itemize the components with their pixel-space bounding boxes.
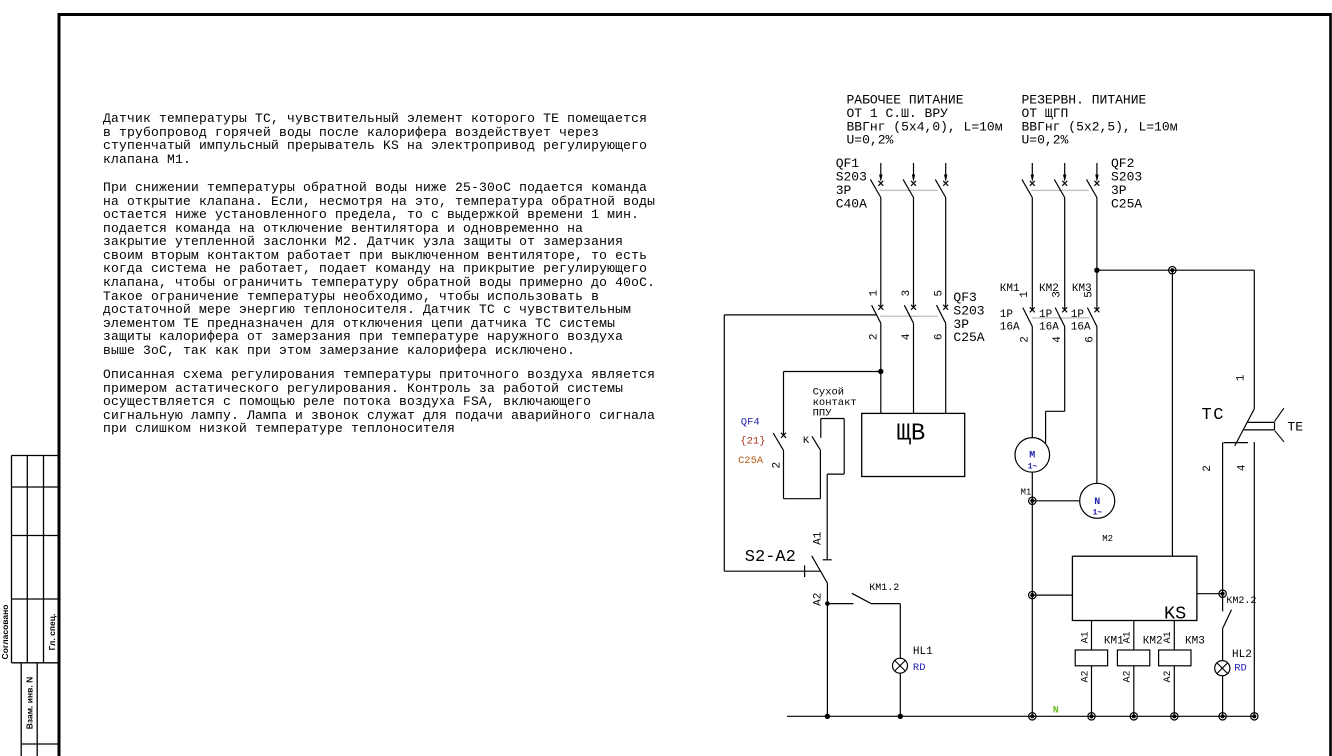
wire TC pin4 down to N bus: [1253, 442, 1255, 716]
wire QF3 pole 2 to panel ЩВ: [913, 323, 915, 413]
svg-text:КМ1.2: КМ1.2: [869, 583, 899, 594]
wire QF3 pole 3 to panel ЩВ: [945, 323, 947, 413]
wire M1 junction to motor M2: [1032, 500, 1079, 502]
svg-text:А1: А1: [812, 531, 824, 545]
svg-text:K: K: [803, 435, 810, 447]
junction node QF4 branch: [878, 369, 883, 374]
svg-text:16А: 16А: [1039, 321, 1059, 333]
bus junction at coil KM1 wire: [1088, 713, 1095, 720]
contactor coil КМ1: [1075, 621, 1107, 717]
TC contact blade through TE element: [1235, 409, 1255, 446]
svg-text:6: 6: [933, 333, 945, 340]
wire branch to QF4 horizontal: [784, 371, 881, 373]
svg-text:А1: А1: [1080, 631, 1091, 643]
dry contact K of fire panel (blade and stub): [812, 419, 821, 451]
S2-A2 fixed contact tick: [804, 565, 806, 577]
contactor KM1 main contact (cross, blade): [1023, 307, 1035, 326]
KM contacts gray pole link: [1032, 317, 1090, 319]
junction node on M1 wire at KS branch: [1029, 591, 1036, 598]
controller box KS: [1072, 556, 1197, 624]
wire TC pin2 down to KM2.2: [1222, 443, 1224, 594]
title block stamp table lower section: [21, 663, 59, 756]
svg-text:1: 1: [869, 290, 881, 297]
wire M1 branch to KS left side: [1032, 594, 1072, 596]
svg-text:2: 2: [869, 333, 881, 340]
wire K contact bottom vertical: [819, 450, 821, 499]
wire QF2 pole 3 to KM contact: [1096, 198, 1098, 310]
svg-text:4: 4: [1052, 336, 1064, 343]
wire QF1 pole 2 to QF3: [913, 198, 915, 308]
svg-text:КМ2.2: КМ2.2: [1226, 596, 1256, 607]
svg-text:KS: KS: [1164, 603, 1186, 624]
wire QF1 pole 3 to QF3: [945, 198, 947, 308]
svg-text:1Р: 1Р: [1000, 309, 1014, 321]
circuit breaker QF2 pole 2 (arrow, contact cross, blade): [1054, 163, 1067, 198]
wire top horizontal net from QF2 pole3 to TC: [1097, 269, 1254, 271]
svg-text:C25A: C25A: [953, 330, 984, 345]
svg-text:16А: 16А: [1071, 321, 1091, 333]
neutral bus N horizontal: [787, 715, 1254, 717]
svg-text:1~: 1~: [1028, 463, 1038, 472]
svg-text:А2: А2: [813, 593, 825, 606]
wire QF4 down: [783, 450, 785, 498]
circuit breaker QF3 label: [953, 290, 984, 345]
contactor KM2 main contact (cross, blade): [1055, 307, 1067, 326]
wire top net down to KS box: [1171, 270, 1173, 556]
circuit breaker QF1 pole 2 (arrow, contact cross, blade): [903, 163, 916, 198]
contact KM1.2: [827, 593, 900, 603]
svg-text:1Р: 1Р: [1071, 309, 1085, 321]
contactor KM3 main contact (cross, blade): [1087, 307, 1099, 326]
svg-text:U=0,2%: U=0,2%: [847, 133, 894, 148]
svg-text:3: 3: [901, 290, 913, 297]
svg-text:TE: TE: [1287, 420, 1303, 435]
svg-text:C40A: C40A: [836, 196, 867, 211]
circuit breaker QF2 pole 1 (arrow, contact cross, blade): [1022, 163, 1035, 198]
wire HL1 to N bus: [899, 673, 901, 716]
TC contact terminal 2 bar: [1223, 442, 1248, 444]
svg-text:ЩВ: ЩВ: [897, 421, 926, 448]
wire from left control branch to QF3 pole 1: [724, 314, 876, 316]
wire QF1 pole 1 to QF3: [880, 198, 882, 308]
svg-text:Гл. спец.: Гл. спец.: [47, 614, 57, 651]
svg-text:КМ1: КМ1: [1000, 283, 1020, 295]
junction node A2: [825, 601, 830, 606]
contact KM2.2: [1223, 594, 1232, 628]
svg-text:КМ2: КМ2: [1143, 635, 1163, 647]
svg-text:КМ3: КМ3: [1185, 635, 1205, 647]
wire motor M1 down to KS and N bus: [1031, 472, 1033, 716]
panel box ЩВ: [862, 413, 965, 476]
circuit breaker QF4 contact (cross, blade): [773, 433, 786, 451]
junction node branch to KS: [1169, 267, 1176, 274]
svg-text:1~: 1~: [1093, 509, 1103, 518]
svg-text:КМ1: КМ1: [1104, 635, 1124, 647]
title block stamp table upper section: [12, 456, 60, 663]
svg-text:RD: RD: [913, 662, 926, 674]
svg-text:N: N: [1094, 497, 1100, 508]
svg-text:QF4: QF4: [741, 417, 760, 429]
svg-text:M: M: [1029, 451, 1035, 462]
bus junction at coil KM3 wire: [1171, 713, 1178, 720]
svg-text:5: 5: [1084, 291, 1096, 298]
svg-text:6: 6: [1084, 336, 1096, 343]
svg-text:1Р: 1Р: [1039, 309, 1053, 321]
svg-text:А2: А2: [1080, 670, 1091, 682]
svg-text:RD: RD: [1234, 663, 1247, 675]
svg-text:HL1: HL1: [913, 646, 933, 658]
wire S2-A2 down to N bus: [826, 584, 828, 717]
circuit breaker QF3 pole 1 (contact cross, blade): [872, 305, 884, 323]
svg-text:C25A: C25A: [738, 455, 764, 467]
svg-text:{21}: {21}: [740, 436, 765, 448]
svg-text:2: 2: [1020, 336, 1032, 343]
contactor coil КМ3: [1159, 621, 1191, 717]
wire QF2 pole 2 to KM contact: [1064, 198, 1066, 310]
svg-text:3: 3: [1052, 291, 1064, 298]
circuit breaker QF2 pole 3 (arrow, contact cross, blade): [1087, 163, 1100, 198]
svg-text:А2: А2: [1163, 670, 1174, 682]
reserve supply header text: [1022, 93, 1178, 148]
svg-text:1: 1: [1235, 374, 1247, 381]
wire KS right side to KM2.2: [1197, 593, 1223, 595]
wire KM1 contact to motor M1: [1031, 327, 1033, 438]
svg-text:16А: 16А: [1000, 321, 1020, 333]
junction node on QF2 pole3 wire: [1094, 268, 1099, 273]
contactor coil КМ2: [1117, 621, 1149, 717]
switch S2-A2 blade: [812, 556, 828, 584]
motor M1 circle: [1015, 438, 1050, 473]
svg-text:4: 4: [901, 333, 913, 340]
svg-text:ППУ: ППУ: [813, 408, 833, 420]
circuit breaker QF2 label: [1111, 156, 1142, 211]
drawing frame left border: [58, 13, 61, 756]
rating label 1P 16A of KM1: [1000, 309, 1020, 333]
contactor labels KM1 KM2 KM3: [1000, 283, 1092, 295]
bus junction at S2-A2 wire: [825, 714, 830, 719]
bus junction at M1 wire: [1029, 713, 1036, 720]
svg-text:S2-A2: S2-A2: [745, 548, 796, 567]
drawing frame right border: [1329, 13, 1332, 756]
bus junction at HL1 wire: [898, 714, 903, 719]
junction node M1: [1029, 497, 1036, 504]
wire down to TC contact (pin 1): [1253, 270, 1255, 409]
circuit breaker QF1 pole 3 (arrow, contact cross, blade): [935, 163, 948, 198]
svg-text:C25A: C25A: [1111, 196, 1142, 211]
circuit breaker QF1 gray pole link: [880, 189, 938, 191]
circuit breaker QF3 pole 2 (contact cross, blade): [904, 305, 916, 323]
wire KM1.2 to lamp HL1: [899, 604, 901, 659]
bus junction at TC pin4 wire: [1251, 713, 1258, 720]
svg-text:U=0,2%: U=0,2%: [1022, 133, 1069, 148]
svg-text:А1: А1: [1123, 631, 1134, 643]
rating label 1P 16A of KM2: [1039, 309, 1059, 333]
svg-text:М1: М1: [1021, 487, 1032, 497]
wire HL2 to N bus: [1222, 676, 1224, 717]
svg-text:1: 1: [1019, 291, 1031, 298]
TE capsule bars: [1244, 422, 1275, 430]
svg-text:N: N: [1053, 706, 1059, 717]
wire branch to QF4 vertical: [783, 372, 785, 435]
svg-text:М2: М2: [1102, 534, 1113, 544]
bus junction at HL2 wire: [1219, 713, 1226, 720]
circuit breaker QF4 labels: [738, 417, 766, 467]
drawing frame top border: [58, 13, 1332, 16]
bus junction at coil KM2 wire: [1130, 713, 1137, 720]
wire S2-A2 feed horizontal: [724, 570, 820, 572]
lamp HL2: [1215, 661, 1230, 676]
svg-text:5: 5: [933, 290, 945, 297]
wire KM2 contact to motor M1 (jog): [1046, 327, 1065, 443]
lamp HL1: [893, 658, 908, 673]
working supply header text: [847, 93, 1003, 148]
wire KM2.2 to lamp HL2: [1222, 628, 1224, 661]
circuit breaker QF2 gray pole link: [1031, 189, 1089, 191]
svg-text:Согласовано: Согласовано: [0, 605, 10, 660]
coil terminal A1 tee bar: [823, 559, 832, 561]
svg-text:А1: А1: [1163, 631, 1174, 643]
wire KM3 contact to motor M2: [1096, 327, 1098, 484]
wire bracket from K contact to coil A1: [821, 419, 844, 560]
circuit breaker QF3 gray pole link: [880, 315, 937, 317]
svg-text:2: 2: [771, 462, 783, 469]
motor M2 circle: [1080, 483, 1115, 518]
wire QF4 to K contact bottom: [784, 498, 821, 500]
circuit breaker QF1 label: [836, 156, 867, 211]
svg-text:А2: А2: [1123, 670, 1134, 682]
TE capillary splay lines: [1275, 408, 1285, 442]
junction node KM2.2 top: [1219, 590, 1226, 597]
label Сухой контакт ППУ: [813, 386, 857, 419]
svg-text:TC: TC: [1202, 406, 1225, 425]
svg-text:2: 2: [1202, 465, 1214, 472]
rating label 1P 16A of KM3: [1071, 309, 1091, 333]
wire QF3 pole 1 to panel ЩВ: [880, 323, 882, 413]
circuit breaker QF1 pole 1 (arrow, contact cross, blade): [870, 163, 883, 198]
wire left control branch vertical: [723, 315, 725, 571]
svg-text:HL2: HL2: [1232, 649, 1252, 661]
svg-text:Взам. инв. N: Взам. инв. N: [25, 677, 35, 729]
wire QF2 pole 1 to KM contact: [1031, 198, 1033, 310]
circuit breaker QF3 pole 3 (contact cross, blade): [937, 305, 949, 323]
svg-text:4: 4: [1237, 464, 1249, 471]
